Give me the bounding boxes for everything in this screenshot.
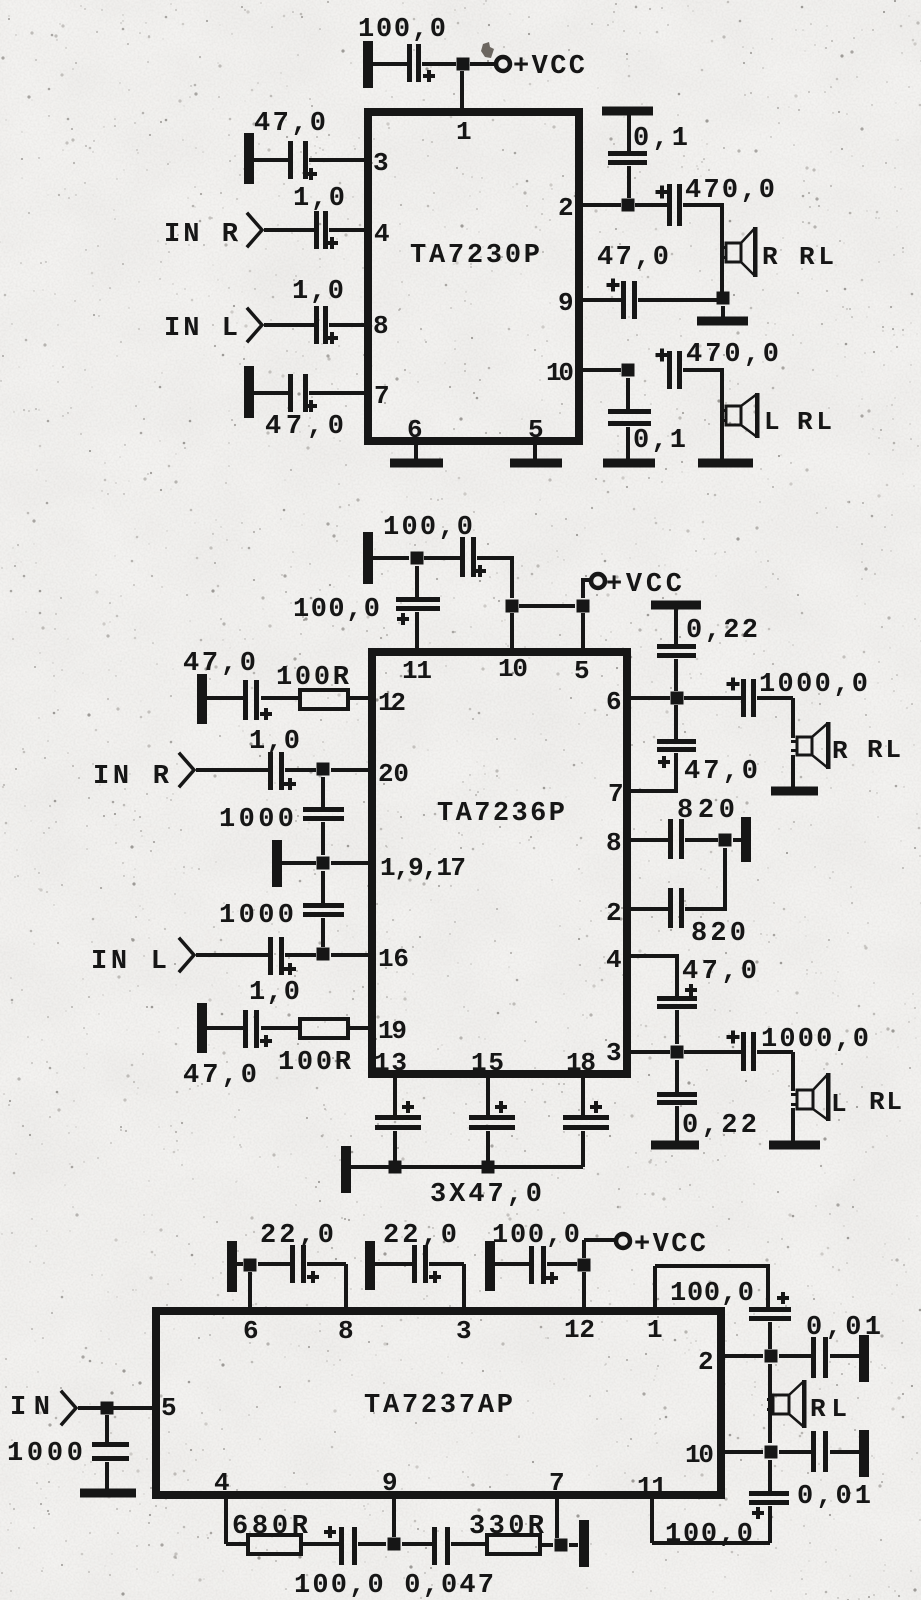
capacitor 1,0 pin20 polarity + [284,782,296,786]
capacitor 1,0 at pin 8 (plates) [314,306,319,344]
wire ground bar to VCC cap [373,62,407,66]
wire cap to node (c3 pin12) [547,1262,577,1266]
node pin 10 junction [622,364,635,377]
ground bar bottom network (c3) [579,1520,589,1567]
wire cap to speaker node [638,298,723,302]
wire cap to pin 3 [309,158,364,162]
svg-text:100,0: 100,0 [383,513,473,543]
node VCC junction [457,58,470,71]
wire speaker feed (c3) [768,1364,772,1443]
wire cap to node (pin20) [285,768,316,772]
node rail pin15 [482,1161,495,1174]
input terminal IN chevron (c3) [62,1392,76,1424]
svg-text:1: 1 [456,117,472,147]
svg-text:5: 5 [161,1393,177,1423]
wire 47,0 cap to pin 7 [674,753,678,791]
capacitor 0,01 pin10 (plates) [811,1431,816,1472]
wire node to cap (c3 pin6) [258,1262,290,1266]
wire pin 2 to cap [631,907,668,911]
op-amp IC U3 TA7237AP box [156,1311,721,1495]
ground bar top right (0,22) [651,601,701,610]
capacitor 100,0 bottom (plates) [339,1527,344,1565]
ground bar pin 12 input [197,674,207,724]
wire pin 8 to cap [631,838,668,842]
wire down to 100,0 cap (c3) [766,1266,770,1307]
wire cap to node (c3 bottom) [358,1542,386,1546]
ground bar below pin 6 [390,459,443,468]
svg-text:820: 820 [677,796,735,826]
svg-text:7: 7 [374,381,390,411]
svg-text:1,0: 1,0 [292,277,344,307]
svg-text:12: 12 [564,1315,595,1345]
speaker L (c2) [797,1090,813,1109]
capacitor 100,0 pin1-2 (plates) [749,1307,791,1312]
svg-text:820: 820 [691,919,746,949]
wire cap to ground bar (c3 pin2) [830,1354,859,1358]
ground bar below input cap (c3) [80,1489,136,1498]
svg-text:12: 12 [378,688,406,718]
svg-text:11: 11 [637,1472,667,1502]
wire bar to cap pin7 [254,391,288,395]
wire pin11 node to cap [415,566,419,597]
capacitor 47,0 pin12 polarity + [260,712,272,716]
wire pin 18 down [581,1078,585,1115]
wire 1000 cap to ground (c3) [105,1462,109,1489]
svg-text:100,0: 100,0 [492,1221,580,1251]
svg-text:13: 13 [374,1048,407,1078]
node rail pin13 [389,1161,402,1174]
wire node to pin 20 [331,768,368,772]
wire down to speaker L [720,370,724,459]
node pin 10 top junction [506,600,519,613]
wire node down to pin 12 (c3) [582,1272,586,1307]
capacitor 100,0 top polarity + [474,569,486,573]
capacitor 47,0 pin9 polarity + [607,283,620,287]
input terminal IN L chevron [248,309,262,341]
node pin 6 junction [671,692,684,705]
wire node to 100,0 cap [424,556,460,560]
capacitor 100,0 pin12 polarity + [546,1276,558,1280]
capacitor 1,0 polarity + [326,241,338,245]
wire corner down to pin10 node [510,558,514,598]
circuit 2 top ground bar [363,532,373,584]
svg-text:0,1: 0,1 [633,426,686,456]
wire pin 13 down [393,1078,397,1115]
wire pin 5 to ground [533,445,537,460]
wire node up to VCC terminal [581,578,585,598]
ground bar below speaker L (c2) [769,1141,820,1150]
wire cap to pin2 node (c3) [768,1322,772,1349]
svg-text:470,0: 470,0 [686,340,779,370]
wire node to 0,01 cap (c3) [779,1354,811,1358]
wire 0,1 cap to ground [626,427,630,459]
ground bar below speaker R (c2) [771,787,818,796]
wire node to ground bar (820) [733,838,741,842]
wire pin 9 down (c3) [392,1499,396,1537]
capacitor 0,01 pin2 (plates) [811,1337,816,1378]
capacitor 100,0 polarity + [423,74,435,78]
wire 470,0 cap to speaker R [683,203,724,207]
svg-text:19: 19 [378,1016,407,1046]
wire pin 4 to resistor (c3) [226,1542,248,1546]
wire cap to node (pin8) [685,838,718,842]
capacitor 1,0 polarity + (pin 8) [326,336,338,340]
wire down to pin 8 (c3) [344,1264,348,1307]
wire speaker L to ground (c2) [791,1108,795,1141]
svg-text:6: 6 [407,415,423,445]
svg-text:10: 10 [685,1440,714,1470]
wire 47,0 cap to pin3 node [675,1010,679,1044]
wire down to pin 3 (c3) [462,1264,466,1307]
wire bias node down to 1000 cap [321,871,325,903]
wire cap15 to rail [486,1131,490,1167]
ground bar bottom rail (c2) [341,1146,351,1193]
wire 0,047 cap to resistor 330R (c3) [451,1542,487,1546]
wire pin 7 down (c3) [555,1499,559,1538]
wire bar to cap (c3 pin12) [495,1262,529,1266]
node pin 5 VCC junction [577,600,590,613]
wire node to pin 16 [331,953,368,957]
capacitor 1000,0 pin3 (plates) [741,1032,746,1071]
wire node to 1000,0 cap [684,696,741,700]
wire pin 10 to node (c3) [725,1450,763,1454]
capacitor 47,0 pin13 (plates) [375,1115,421,1120]
VCC terminal circle (c3) [616,1234,630,1248]
wire pin 2 to node (c3) [725,1354,763,1358]
ground bar below pin 5 [510,459,562,468]
svg-text:10: 10 [546,358,574,388]
capacitor 100,0 pin1-2 polarity + [777,1296,789,1300]
wire resistor to pin 12 [348,696,368,700]
svg-text:1: 1 [647,1315,663,1345]
capacitor 47,0 pin19 polarity + [260,1039,272,1043]
capacitor 100,0 pin12 (plates) [529,1246,534,1284]
capacitor 47,0 pin15 (plates) [469,1115,515,1120]
ground bar pin12 cap (c3) [485,1241,495,1291]
svg-text:100R: 100R [278,1048,352,1078]
svg-text:6: 6 [606,687,622,717]
wire pin 6 to ground [414,445,418,460]
svg-text:100,0: 100,0 [665,1520,753,1550]
svg-text:3: 3 [606,1038,622,1068]
svg-text:11: 11 [402,656,432,686]
svg-text:100,0 0,047: 100,0 0,047 [294,1571,494,1600]
svg-text:4: 4 [606,945,622,975]
capacitor 22,0 pin3 (plates) [412,1245,417,1283]
capacitor 100,0 pin11 polarity + [397,617,409,621]
ground bar below 0,22 (c2) [651,1141,699,1150]
wire IN to pin 5 (c3) [78,1406,152,1410]
svg-text:R: R [762,242,778,272]
svg-text:TA7236P: TA7236P [437,799,565,829]
wire cap to pin 4 [329,228,364,232]
node pin 11 top junction [411,552,424,565]
wire VCC cap to node [422,62,456,66]
wire node down to 1000 cap [321,777,325,807]
wire cap to speaker L (c2) [757,1050,793,1054]
capacitor 470,0 pin2 polarity + [656,190,669,194]
wire cap to pin 8 [329,323,364,327]
wire bar to cap (pin19) [207,1026,243,1030]
capacitor 22,0 pin3 polarity + [429,1275,441,1279]
ground bar right of 0,01 bottom (c3) [859,1430,869,1477]
circuit 1 VCC ground bar [363,41,373,88]
wire cap13 to rail [393,1131,397,1167]
svg-text:16: 16 [378,944,409,974]
wire pin 7 [631,789,678,793]
ground bar pin 19 input [197,1003,207,1053]
svg-text:4: 4 [214,1468,230,1498]
wire cap to corner [477,556,514,560]
capacitor 470,0 pin10 polarity + [656,353,669,357]
capacitor 100,0 pin10-11 (plates) [749,1491,789,1496]
wire node to node (VCC rail) [519,604,575,608]
speaker RL (c3) [773,1395,789,1414]
capacitor 47,0 pin12 (plates) [243,680,248,720]
node 820 junction [719,834,732,847]
wire pin 2 to node [583,203,621,207]
node pin 9 junction (c3) [388,1538,401,1551]
node pin 2 junction (c3) [765,1350,778,1363]
svg-text:5: 5 [528,415,544,445]
svg-text:10: 10 [498,654,528,684]
wire bar to node (c2 top) [373,556,409,560]
ground bar at pin 7 input cap [244,366,254,418]
capacitor 47,0 polarity + [305,172,317,176]
capacitor 47,0 pin19 (plates) [243,1010,248,1048]
wire node down to 1000 cap (c3) [105,1415,109,1442]
wire pin 4 down to 47,0 cap [675,954,679,996]
svg-text:1,0: 1,0 [249,727,300,757]
wire pin 6 to node [631,696,670,700]
wire pin 3 to node [631,1050,670,1054]
wire pin 4 down (c3) [224,1499,228,1544]
input terminal IN R chevron [248,214,262,246]
node pin 20 junction [317,763,330,776]
wire 470,0 cap to speaker L [683,368,724,372]
wire bias node to pin 1,9,17 [331,861,368,865]
svg-text:9: 9 [382,1468,398,1498]
speaker R RL [726,243,741,262]
wire pin6 node down to 47,0 [674,705,678,739]
svg-text:2: 2 [606,898,622,928]
capacitor 47,0 polarity + (pin7) [305,404,317,408]
svg-text:3: 3 [373,148,389,178]
ground bar below 0,1 cap [603,459,655,468]
wire node to ground bar (c3) [569,1543,578,1547]
resistor 100R pin19 box [300,1019,348,1038]
svg-text:1,0: 1,0 [249,978,300,1008]
node pin 16 junction [317,948,330,961]
svg-text:TA7230P: TA7230P [410,241,540,271]
svg-text:0,1: 0,1 [633,124,688,154]
capacitor 22,0 pin6 polarity + [307,1275,319,1279]
wire cap to ground bar (c3 pin10) [830,1450,859,1454]
node input junction (c3) [101,1402,114,1415]
resistor 100R pin12 box [300,690,348,709]
svg-text:L: L [764,407,780,437]
capacitor 47,0 pin4 polarity + [685,988,697,992]
svg-text:8: 8 [373,311,389,341]
capacitor 47,0 pin 9 (plates) [621,281,626,319]
wire cap to pin8 drop (c3) [307,1262,346,1266]
svg-text:9: 9 [558,288,574,318]
svg-text:20: 20 [378,759,409,789]
wire 0,22 cap to pin6 node [674,659,678,691]
node pin 3 junction [671,1046,684,1059]
svg-text:100,0: 100,0 [670,1279,754,1309]
wire corner up to 820 node [723,848,727,909]
wire bar to 0,1 cap [627,115,631,151]
input terminal IN L chevron (c2) [180,939,194,971]
svg-text:15: 15 [471,1048,504,1078]
wire bottom ground rail [351,1165,583,1169]
VCC terminal circle [496,57,510,71]
ground bar at pin 3 input cap [244,133,254,184]
wire IN L to cap (c2) [196,953,268,957]
capacitor 820 pin8 (plates) [668,819,673,859]
svg-text:6: 6 [243,1316,259,1346]
ground bar pin3 cap (c3) [365,1241,375,1290]
wire cap to pin 7 [309,391,364,395]
svg-text:R: R [832,736,848,766]
wire bar to 0,22 cap [674,609,678,644]
speaker L RL [726,406,741,425]
capacitor 1000,0 pin6 polarity + [727,682,740,686]
resistor 680R box (c3) [248,1535,301,1554]
wire pin 1 to right cap (c3) [655,1264,770,1268]
ground bar 820 caps [741,817,751,862]
ground bar right of 0,01 top (c3) [859,1335,869,1382]
capacitor 1000 input (plates) [92,1442,129,1447]
wire bar to cap (pin12) [207,696,243,700]
op-amp IC U1 TA7230P box [368,112,579,441]
wire node down to pin 6 (c3) [248,1272,252,1307]
ground bar above 0,1 cap (pin2) [602,107,653,116]
capacitor 1000 upper (plates) [303,807,344,812]
wire 1000 cap to pin16 node [321,918,325,947]
svg-text:18: 18 [566,1048,596,1078]
svg-text:8: 8 [606,828,622,858]
wire pin 11 down (c3) [650,1499,654,1543]
wire cap to resistor (pin12) [261,696,298,700]
ground bar pin6 cap (c3) [227,1241,237,1292]
capacitor 1000,0 pin3 polarity + [727,1035,740,1039]
svg-text:7: 7 [608,779,624,809]
svg-text:2: 2 [698,1347,714,1377]
wire resistor to pin 19 [348,1026,368,1030]
wire pin 9 to cap [583,298,621,302]
wire down to speaker R [720,205,724,298]
speaker R (c2) [797,737,812,755]
wire VCC node down to pin 1 [460,71,464,108]
wire corner to pin 11 (c3) [652,1541,770,1545]
wire cap to resistor (pin19) [261,1026,298,1030]
svg-text:1,0: 1,0 [293,184,345,214]
capacitor 47,0 pin18 polarity + [590,1105,602,1109]
wire node to VCC terminal [470,62,497,66]
wire node to 470,0 cap [635,203,667,207]
capacitor 100,0 pin10-11 polarity + [752,1511,764,1515]
wire IN R to cap (c2) [196,768,268,772]
capacitor 1,0 pin16 polarity + [284,967,296,971]
node bias junction 1,9,17 [317,857,330,870]
capacitor 0,1 pin10 (plates) [608,409,651,414]
wire cap to pin 11 [415,612,419,648]
wire bar to cap pin3 [254,158,288,162]
node pin 12 junction (c3) [578,1259,591,1272]
wire bar to bias node [282,861,316,865]
wire node to 0,01 cap bottom (c3) [779,1450,811,1454]
node pin 10 junction (c3) [765,1446,778,1459]
capacitor 470,0 pin2 (plates) [667,184,672,226]
wire pin 15 down [486,1078,490,1115]
ground bar bias (1,9,17) [272,840,282,887]
wire cap to pin3 drop (c3) [429,1262,464,1266]
node pin 7 junction (c3) [555,1539,568,1552]
wire node to ground [721,306,725,318]
node pin 6 junction (c3) [244,1259,257,1272]
wire IN L to cap [264,323,314,327]
node pin 2 junction [622,199,635,212]
wire speaker R to ground (c2) [791,755,795,787]
capacitor 1,0 pin16 (plates) [268,937,273,975]
capacitor 47,0 pin4-3 (plates) [657,996,697,1001]
wire resistor 330R to node (c3) [540,1543,553,1547]
capacitor 47,0 pin6-7 polarity + [658,760,670,764]
capacitor 1000,0 pin6 (plates) [741,679,746,717]
capacitor 100,0 polarity + (c3 bottom) [324,1530,336,1534]
wire pin10 node to 0,1 cap [626,378,630,409]
wire node to 0,047 cap (c3) [402,1542,432,1546]
svg-text:3: 3 [456,1316,472,1346]
node speaker R return [717,292,730,305]
wire to VCC terminal (c3) [584,1238,615,1242]
capacitor 1,0 at pin 4 (plates) [314,211,319,249]
svg-text:100,0: 100,0 [293,595,380,625]
wire pin 4 [631,954,679,958]
capacitor 0,1 pin2 (plates) [608,151,647,156]
capacitor 47,0 pin13 polarity + [402,1105,414,1109]
wire cap to node (pin16) [285,953,316,957]
resistor 330R box (c3) [487,1535,540,1554]
wire down to speaker L (c2) [791,1052,795,1091]
wire node up to VCC (c3) [582,1240,586,1258]
capacitor 0,047 (plates) [432,1527,437,1565]
wire pin 1 up (c3) [653,1266,657,1307]
wire cap to speaker R (c2) [757,696,793,700]
wire 0,1 cap to pin2 node [627,166,631,198]
wire bar to node (c3 pin6) [237,1262,243,1266]
wire down to speaker R (c2) [791,698,795,738]
capacitor 470,0 pin10 (plates) [667,351,672,389]
wire node to pin 5 [581,613,585,648]
svg-text:RL: RL [869,1087,902,1117]
capacitor 1000 lower (plates) [303,903,344,908]
capacitor 820 pin2 (plates) [668,888,673,928]
svg-text:1,9,17: 1,9,17 [380,853,466,883]
wire pin3 node down to 0,22 [675,1060,679,1092]
wire 0,22 cap to ground [675,1106,679,1141]
capacitor 22,0 pin6 (plates) [290,1245,295,1283]
capacitor 0,22 pin6 (plates) [657,644,696,649]
wire cap to corner (pin2) [685,907,727,911]
capacitor 47,0 pin15 polarity + [495,1105,507,1109]
ground bar below speaker R [697,317,748,326]
capacitor 47,0 at pin 7 (plates) [288,374,293,412]
capacitor 47,0 pin18 (plates) [563,1115,609,1120]
wire node to 1000,0 cap (pin3) [684,1050,741,1054]
